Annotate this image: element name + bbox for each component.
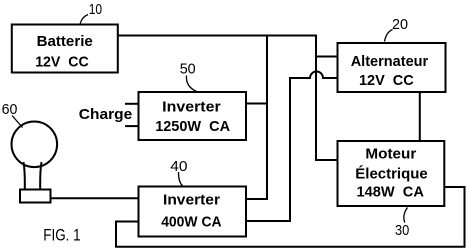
- svg-text:12V CC: 12V CC: [35, 53, 89, 70]
- svg-text:30: 30: [395, 222, 409, 239]
- svg-text:Inverter: Inverter: [163, 192, 220, 209]
- svg-text:Électrique: Électrique: [355, 165, 427, 182]
- svg-text:148W CA: 148W CA: [357, 184, 425, 201]
- svg-text:40: 40: [170, 158, 187, 175]
- svg-text:FIG. 1: FIG. 1: [43, 226, 80, 245]
- svg-text:1250W CA: 1250W CA: [155, 118, 230, 135]
- svg-text:Inverter: Inverter: [162, 98, 221, 115]
- svg-text:Alternateur: Alternateur: [351, 53, 429, 70]
- svg-text:12V CC: 12V CC: [359, 72, 414, 89]
- svg-text:Moteur: Moteur: [365, 146, 416, 163]
- svg-text:20: 20: [392, 16, 408, 33]
- svg-text:Charge: Charge: [79, 106, 132, 123]
- svg-text:60: 60: [2, 101, 18, 118]
- svg-text:Batterie: Batterie: [37, 33, 93, 50]
- svg-text:10: 10: [89, 1, 102, 18]
- svg-text:400W CA: 400W CA: [161, 213, 222, 230]
- svg-text:50: 50: [180, 60, 196, 77]
